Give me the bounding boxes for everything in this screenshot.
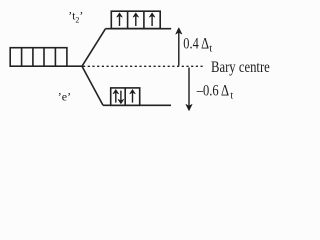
svg-text:’t2’: ’t2’ — [68, 8, 83, 24]
svg-text:Bary centre: Bary centre — [211, 59, 270, 76]
svg-text:0.4 Δ: 0.4 Δ — [183, 36, 209, 53]
svg-text:t: t — [209, 44, 212, 55]
svg-text:’e’: ’e’ — [58, 89, 71, 103]
svg-text:t: t — [230, 91, 233, 102]
svg-text:–0.6 Δ: –0.6 Δ — [196, 82, 229, 99]
